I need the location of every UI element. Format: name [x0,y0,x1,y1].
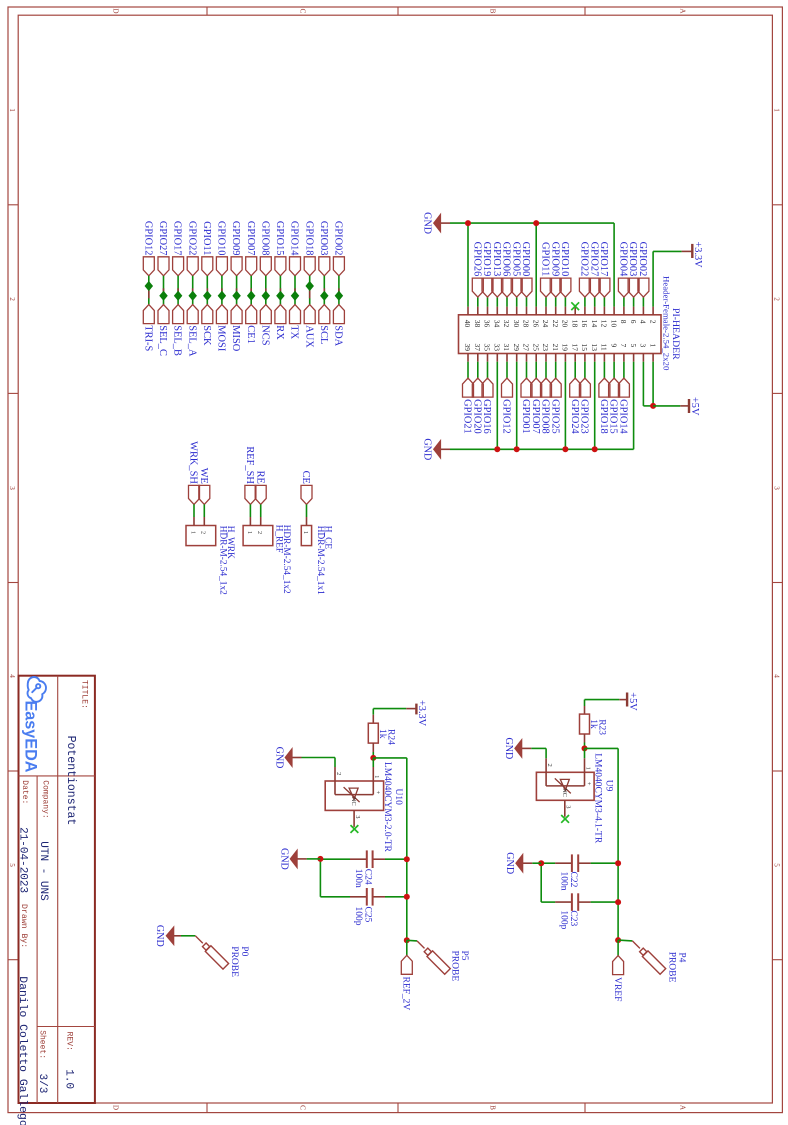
svg-text:REV:: REV: [65,1032,74,1051]
svg-text:22: 22 [551,320,560,328]
svg-text:21-04-2023: 21-04-2023 [17,827,29,893]
junction C24 gnd node [317,856,323,862]
svg-text:GPIO10: GPIO10 [216,221,227,256]
svg-text:D: D [112,8,120,13]
svg-text:B: B [489,1105,497,1110]
pin 6 stub [633,297,635,315]
svg-text:WE: WE [198,468,209,484]
net label GPIO12 pin 31 [501,378,513,434]
svg-text:6: 6 [629,320,638,324]
svg-text:1: 1 [189,531,196,534]
junction diamond GPIO15 [277,292,284,301]
svg-text:2: 2 [773,297,781,301]
svg-text:C: C [299,9,307,14]
pin 3 lead U9 [565,800,572,817]
pin 35 stub [487,354,489,379]
svg-text:GPIO08: GPIO08 [540,399,551,434]
svg-text:+3.3V: +3.3V [692,242,703,269]
net label GPIO08 [259,221,271,276]
svg-text:PROBE: PROBE [229,946,239,977]
probe P5 [417,941,450,974]
connector H_WRK body [186,526,216,546]
svg-text:MISO: MISO [230,325,241,351]
net label GPIO04 pin 8 [618,242,630,297]
svg-text:GPIO12: GPIO12 [501,399,512,434]
net label REF_2V [401,955,413,1010]
net label GPIO26 pin 38 [471,242,483,297]
svg-text:2: 2 [8,297,16,301]
net label SCK [201,305,213,346]
svg-text:TX: TX [289,325,300,339]
net label GPIO08 pin 23 [540,378,552,434]
svg-text:GPIO05: GPIO05 [510,242,521,277]
svg-text:LM4040CYM3-2.0-TR: LM4040CYM3-2.0-TR [382,762,392,853]
net label GPIO02 pin 4 [637,242,649,297]
connector PI-HEADER body [459,315,662,354]
wire GPIO11-SCK [206,276,208,305]
pin 38 stub [477,297,479,315]
junction diamond GPIO17 [175,292,182,301]
svg-text:1: 1 [373,775,380,778]
svg-text:28: 28 [522,320,531,328]
wire pin 3 to +5V node [643,354,653,406]
ground flag odd bus [422,438,450,460]
svg-text:GPIO23: GPIO23 [579,399,590,434]
pin 9 stub [613,354,615,379]
svg-text:GPIO13: GPIO13 [491,242,502,277]
wire pin 10 to gnd bus [613,223,615,315]
capacitor C23 leads [541,901,618,903]
svg-text:11: 11 [600,344,609,351]
pin 36 stub [487,297,489,315]
svg-text:37: 37 [473,344,482,352]
pin 37 stub [477,354,479,379]
probe P5 labels [450,951,470,982]
svg-text:+: + [374,791,381,795]
probe P4 [632,941,665,974]
junction C23 rail [615,899,621,905]
pin 24 stub [545,297,547,315]
junction pin40 bus [465,220,471,226]
svg-text:GPIO22: GPIO22 [579,242,590,277]
wire junction to U9 pin1 [584,748,586,758]
svg-text:1.0: 1.0 [63,1069,75,1089]
svg-text:UTN - UNS: UTN - UNS [37,841,49,901]
junction pin29 bus [514,446,520,452]
frame column ticks top [772,204,782,206]
svg-text:2: 2 [648,320,657,324]
svg-text:U9: U9 [604,780,614,792]
ic U10 body [325,781,383,810]
net label GPIO00 pin 28 [520,242,532,297]
frame row ticks left [584,7,586,15]
capacitor C25 leads [320,896,406,898]
junction diamond GPIO18 [306,282,313,291]
junction pin33 bus [494,446,500,452]
net label GPIO25 pin 21 [549,378,561,434]
svg-text:100n: 100n [559,872,569,891]
svg-text:5: 5 [773,863,781,867]
net label GPIO07 pin 25 [530,378,542,434]
net label GPIO16 pin 35 [481,378,493,434]
svg-text:GPIO16: GPIO16 [481,399,492,434]
wire pin 33 to gnd bus [496,354,498,450]
frame column ticks bottom [8,204,18,206]
ground flag P0 [154,925,196,947]
net label TRI-S [142,305,154,352]
junction C22 gnd node [538,860,544,866]
wire R24 to junction [372,743,374,758]
svg-text:GPIO09: GPIO09 [230,221,241,256]
resistor R23 body [580,714,590,734]
ground flag U10 pin2 [302,757,336,759]
junction diamond GPIO09 [233,292,240,301]
wire GPIO09-MISO [236,276,238,305]
svg-text:GPIO14: GPIO14 [618,399,629,434]
svg-text:100p: 100p [353,907,363,926]
net label CE1 [245,305,257,344]
pin 17 stub [574,354,576,379]
wire pin 29 to gnd bus [516,354,518,450]
svg-text:31: 31 [502,344,511,352]
pin 1 lead U9 [584,758,591,786]
net label GPIO22 pin 16 [579,242,591,297]
net label GPIO10 pin 20 [559,242,571,297]
connector H_CE labels [315,526,333,595]
svg-text:SCL: SCL [318,325,329,344]
svg-text:18: 18 [570,320,579,328]
wire U10 pin2 to GND [334,758,336,768]
svg-text:U10: U10 [393,789,403,806]
svg-text:GPIO09: GPIO09 [549,242,560,277]
svg-text:NC: NC [350,797,357,806]
junction +5V node [650,403,656,409]
junction diamond GPIO07 [248,292,255,301]
capacitor C25 plates [367,888,373,906]
svg-text:GPIO00: GPIO00 [520,242,531,277]
pin 31 stub [506,354,508,379]
svg-text:3: 3 [354,815,361,818]
net label WRK_SH [188,441,200,504]
pin 7 stub [623,354,625,379]
svg-text:33: 33 [493,344,502,352]
svg-text:RX: RX [274,325,285,340]
net label GPIO27 pin 14 [588,242,600,297]
svg-text:1k: 1k [377,729,387,739]
net label GPIO27 [157,221,169,276]
net label GPIO21 pin 39 [462,378,474,434]
svg-text:GPIO24: GPIO24 [569,399,580,434]
junction diamond GPIO02 [335,292,342,301]
svg-text:GPIO08: GPIO08 [259,221,270,256]
svg-text:30: 30 [512,320,521,328]
svg-text:GPIO17: GPIO17 [172,221,183,256]
bypass bottom rail U10 [319,859,321,897]
svg-text:GPIO04: GPIO04 [618,242,629,277]
net label SDA [333,305,345,347]
gnd bus even side [450,222,614,224]
svg-text:3/3: 3/3 [36,1074,48,1094]
svg-text:15: 15 [580,344,589,352]
pin 3 lead U10 [354,810,361,827]
svg-text:TITLE:: TITLE: [80,680,89,709]
svg-text:EasyEDA: EasyEDA [22,701,40,773]
wire GPIO27-SEL_C [163,276,165,305]
net label AUX [303,305,315,349]
net label GPIO03 pin 6 [627,242,639,297]
svg-text:36: 36 [483,320,492,328]
wire WRK_SH to H_WRK pin 1 [193,504,195,525]
capacitor C23 plates [572,893,578,911]
pin 34 stub [496,297,498,315]
svg-text:GPIO20: GPIO20 [471,399,482,434]
wire GPIO02-SDA [338,276,340,305]
pin 12 stub [603,297,605,315]
svg-text:TRI-S: TRI-S [142,325,153,351]
svg-text:GPIO03: GPIO03 [318,221,329,256]
wire +3.3V to R24 [373,709,406,724]
svg-text:GPIO18: GPIO18 [598,399,609,434]
power flag +5V header [680,397,700,416]
svg-text:17: 17 [570,344,579,352]
title block internal lines [19,676,95,1103]
junction pin26 bus [533,220,539,226]
svg-text:GPIO02: GPIO02 [637,242,648,277]
svg-text:2: 2 [335,772,342,775]
net label GPIO24 pin 17 [569,378,581,434]
probe P4 labels [667,952,687,983]
pin numbers even [463,320,657,328]
probe P0 labels [229,946,249,977]
ground flag U10 caps [307,858,321,860]
pin 16 stub [584,297,586,315]
ground flag U9 pin2 [531,747,546,749]
svg-text:3: 3 [565,805,572,808]
svg-text:GND: GND [422,212,433,234]
net label GPIO05 pin 30 [510,242,522,297]
wire GPIO18-AUX [309,276,311,305]
title block outline [19,676,95,1103]
net label GPIO01 pin 27 [520,378,532,434]
junction diamond GPIO10 [218,292,225,301]
svg-text:RE: RE [254,471,265,484]
wire GPIO08-NCS [265,276,267,305]
svg-text:GND: GND [278,848,289,870]
ground flag U9 caps [532,862,541,864]
junction R24 node [370,755,376,761]
net label REF_SH [244,446,256,504]
wire pin 2 to +3.3V [653,251,682,314]
resistor R24 body [368,723,378,743]
svg-text:GND: GND [273,747,284,769]
svg-text:C22: C22 [568,872,578,888]
svg-text:SEL_C: SEL_C [157,325,168,356]
svg-text:HDR-M-2.54_1x2: HDR-M-2.54_1x2 [218,526,228,595]
pin numbers odd [463,344,657,352]
net label RE [254,471,266,505]
power flag +3.3V header [682,242,704,269]
bypass bottom rail U9 [540,863,542,902]
svg-text:P5: P5 [459,951,469,961]
svg-text:CE: CE [300,471,311,484]
svg-text:4: 4 [639,320,648,324]
wire +5V to R23 [585,700,620,715]
net label GPIO03 [318,221,330,276]
no-connect X U9 pin 3 [561,815,569,823]
net label GPIO20 pin 37 [471,378,483,434]
no-connect X U10 pin 3 [351,825,359,833]
svg-text:1: 1 [8,108,16,112]
junction C24 rail [404,856,410,862]
svg-text:+: + [585,782,592,786]
svg-text:GND: GND [422,438,433,460]
svg-text:100p: 100p [559,910,569,929]
svg-text:3: 3 [8,486,16,490]
svg-text:REF_2V: REF_2V [401,977,411,1011]
pin 25 stub [535,354,537,379]
pin 39 stub [467,354,469,379]
pin 22 stub [555,297,557,315]
net label GPIO14 pin 7 [618,378,630,434]
easyeda logo [28,677,47,702]
wire GPIO07-CE1 [250,276,252,305]
net label SEL_B [172,305,184,356]
svg-text:SEL_A: SEL_A [186,325,197,357]
svg-text:Header-Female-2.54_2x20: Header-Female-2.54_2x20 [662,276,672,371]
svg-text:A: A [679,1105,687,1111]
pin 2 lead U10 [335,767,342,795]
svg-text:GPIO10: GPIO10 [559,242,570,277]
wire GPIO17-SEL_B [177,276,179,305]
net label GPIO06 pin 32 [501,242,513,297]
net label SCL [318,305,330,345]
junction diamond GPIO11 [204,292,211,301]
net label MOSI [216,305,228,352]
svg-text:H_REF: H_REF [274,525,284,553]
pin 21 stub [555,354,557,379]
svg-text:21: 21 [551,344,560,352]
pin 2 lead U9 [546,758,553,786]
net label GPIO09 pin 22 [549,242,561,297]
net label GPIO23 pin 15 [579,378,591,434]
connector H_REF labels [274,525,291,594]
net label GPIO07 [245,221,257,276]
net label MISO [230,305,242,352]
svg-text:1: 1 [246,531,253,534]
net label NCS [259,305,271,346]
net label GPIO22 [186,221,198,276]
svg-text:SEL_B: SEL_B [172,325,183,356]
svg-text:GPIO03: GPIO03 [627,242,638,277]
svg-text:3: 3 [773,486,781,490]
wire pin 1 to +5V node [652,354,654,406]
net label GPIO02 [333,221,345,276]
svg-text:5: 5 [629,344,638,348]
svg-text:GPIO01: GPIO01 [520,399,531,434]
wire pin 5 to gnd bus [633,354,635,450]
capacitor C24 leads [320,858,406,860]
net label GPIO09 [230,221,242,276]
svg-text:25: 25 [531,344,540,352]
ic U9 internal zener [546,778,584,793]
svg-text:GPIO02: GPIO02 [333,221,344,256]
svg-text:GPIO26: GPIO26 [471,242,482,277]
svg-text:+5V: +5V [689,397,700,416]
svg-text:19: 19 [561,344,570,352]
svg-text:AUX: AUX [303,325,314,348]
svg-text:27: 27 [522,344,531,352]
connector H_REF body [243,526,273,546]
wire junction to U10 pin1 [372,758,374,767]
junction diamond GPIO08 [262,292,269,301]
svg-text:CE1: CE1 [245,325,256,343]
svg-text:SDA: SDA [333,325,344,346]
pin 27 stub [526,354,528,379]
wire U9 pin2 to GND [545,748,547,758]
net label GPIO19 pin 36 [481,242,493,297]
wire junction to bypass rail U9 [585,748,619,940]
wire GPIO15-RX [279,276,281,305]
svg-text:GND: GND [504,852,515,874]
svg-text:1: 1 [648,344,657,348]
svg-text:Potentionstat: Potentionstat [64,736,77,826]
svg-text:3: 3 [639,344,648,348]
net label GPIO15 pin 9 [608,378,620,434]
net label GPIO12 [142,221,154,276]
svg-text:LM4040CYM3-4.1-TR: LM4040CYM3-4.1-TR [592,753,602,844]
svg-text:SCK: SCK [201,325,212,346]
svg-text:GPIO17: GPIO17 [598,242,609,277]
wire junction to bypass rail U10 [373,758,407,940]
svg-text:GPIO12: GPIO12 [142,221,153,256]
net label SEL_A [186,305,198,357]
svg-text:8: 8 [619,320,628,324]
svg-text:P4: P4 [677,952,687,962]
svg-text:4: 4 [773,674,781,678]
svg-text:2: 2 [546,763,553,766]
svg-text:GPIO15: GPIO15 [274,221,285,256]
net label GPIO10 [216,221,228,276]
net label RX [274,305,286,341]
svg-text:D: D [112,1105,120,1110]
net label GPIO11 [201,221,213,276]
net label VREF [612,956,624,1002]
power flag +5V U9 [619,692,638,711]
junction C25 rail [404,894,410,900]
gnd bus odd side [450,448,634,450]
svg-text:34: 34 [493,320,502,328]
svg-text:GPIO11: GPIO11 [540,242,551,276]
ic U10 internal zener [335,787,373,802]
svg-text:32: 32 [502,320,511,328]
svg-text:12: 12 [600,320,609,328]
svg-text:GPIO06: GPIO06 [501,242,512,277]
svg-text:40: 40 [463,320,472,328]
svg-text:NC: NC [561,788,568,797]
junction REF_2V node [404,937,410,943]
connector H_WRK labels [218,526,236,595]
wire WE to H_WRK pin 2 [203,504,205,525]
wire R23 to junction [584,734,586,748]
net label CE [300,471,312,505]
svg-text:GPIO27: GPIO27 [157,221,168,256]
pin 28 stub [526,297,528,315]
svg-text:B: B [489,9,497,14]
wire CE to H_CE pin 1 [306,504,308,525]
net label GPIO17 [172,221,184,276]
svg-text:Danilo Coletto Gallego: Danilo Coletto Gallego [16,976,28,1125]
svg-text:VREF: VREF [612,977,622,1001]
